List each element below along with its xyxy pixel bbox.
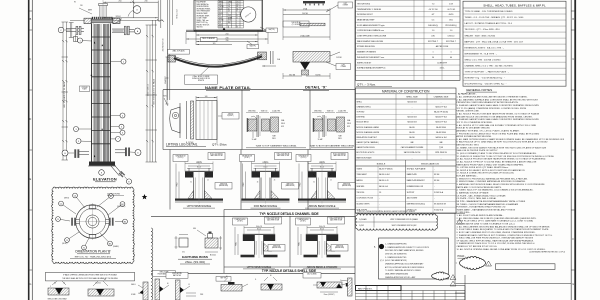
svg-text:4. ALL NOZZLE PROJECTIONS ARE: 4. ALL NOZZLE PROJECTIONS ARE TAKEN FROM… bbox=[457, 113, 540, 116]
svg-text:140: 140 bbox=[205, 96, 208, 98]
svg-text:1. ALL DIMENSIONS ARE IN MILLI: 1. ALL DIMENSIONS ARE IN MILLIMETER UNLE… bbox=[457, 96, 529, 99]
svg-text:C-(302: C-(302 bbox=[359, 225, 364, 227]
svg-text:TYP. NOZZLE DETAILS CHANNEL SI: TYP. NOZZLE DETAILS CHANNEL SIDE bbox=[259, 212, 318, 216]
svg-text:LIFT: LIFT bbox=[342, 64, 345, 66]
leader from flange bbox=[103, 20, 163, 22]
svg-text:9.1: 9.1 bbox=[219, 15, 221, 17]
svg-text:1.5: 1.5 bbox=[188, 284, 190, 286]
svg-text:(BEND&ONW): (BEND&ONW) bbox=[219, 185, 229, 187]
svg-text:SURFACE AREA (GROSS/EFF) m: SURFACE AREA (GROSS/EFF) m bbox=[357, 67, 386, 70]
svg-text:60: 60 bbox=[104, 279, 106, 281]
svg-text:C: C bbox=[572, 58, 574, 61]
svg-text:(25 WT.): (25 WT.) bbox=[237, 221, 243, 223]
svg-text:7.0: 7.0 bbox=[237, 2, 239, 4]
svg-text:SQ.NUT ): SQ.NUT ) bbox=[227, 115, 234, 117]
left dim of dish bbox=[166, 57, 168, 104]
name plate detail dish bbox=[168, 50, 190, 55]
revision table bbox=[356, 286, 402, 291]
lifting lug detail bbox=[170, 107, 180, 133]
svg-text:BOLT/STUDS & NUTS: BOLT/STUDS & NUTS bbox=[357, 152, 376, 154]
svg-text:SHELL, HEAD, TUBES, BAFFLES &: SHELL, HEAD, TUBES, BAFFLES & IMP.PL bbox=[483, 4, 546, 8]
svg-text:COOLER: COOLER bbox=[82, 87, 88, 89]
svg-text:SS TUBES - CHOKSI TUBE/RATNA: SS TUBES - CHOKSI TUBE/RATNAMANI/SANDVIK… bbox=[457, 203, 519, 206]
svg-text:1.6THK: 1.6THK bbox=[336, 57, 343, 59]
svg-text:OTHER: OTHER bbox=[343, 5, 349, 7]
svg-text:GASKETS KNUCKLES: GASKETS KNUCKLES bbox=[357, 146, 376, 149]
svg-text:DESIGN PRESS.: DESIGN PRESS. bbox=[197, 6, 210, 8]
earthing boss detail bbox=[151, 215, 224, 217]
svg-text:CAF NON ASBESTOS FIBRE: CAF NON ASBESTOS FIBRE bbox=[401, 146, 424, 149]
svg-text:PARTS AND 2.2 FOR NON-PRESSURE: PARTS AND 2.2 FOR NON-PRESSURE PARTS. bbox=[457, 186, 503, 189]
svg-text:12. VENDOR OF SUBJECTED TO BE: 12. VENDOR OF SUBJECTED TO BE CUT TEST O… bbox=[457, 156, 555, 158]
svg-text:VENT CONDENSER FOR VF-(302: VENT CONDENSER FOR VF-(302 bbox=[392, 225, 417, 227]
svg-text:PROJ: PROJ bbox=[243, 182, 245, 186]
svg-text:GASKET (WITH CHANNEL): GASKET (WITH CHANNEL) bbox=[357, 141, 379, 144]
channel dome arc bbox=[113, 19, 122, 24]
svg-text:4: 4 bbox=[488, 264, 489, 266]
svg-text:VESSEL CENTER LINE.: VESSEL CENTER LINE. bbox=[457, 111, 480, 113]
svg-text:14. ALL NOZZLE TYPES UP TO 200: 14. ALL NOZZLE TYPES UP TO 200 NB SHALL … bbox=[457, 160, 537, 163]
svg-text:9.1: 9.1 bbox=[219, 11, 221, 13]
svg-text:2. ALL WELDING SHALL BE DONE B: 2. ALL WELDING SHALL BE DONE BY QUALIFIE… bbox=[457, 217, 537, 220]
svg-text:1.5/2mm: 1.5/2mm bbox=[95, 283, 102, 285]
svg-text:960: 960 bbox=[228, 22, 231, 24]
svg-text:OTHER: OTHER bbox=[341, 66, 347, 68]
svg-text:1.0: 1.0 bbox=[432, 30, 435, 32]
middle weld details row bbox=[153, 271, 176, 277]
svg-text:5. FLANGES GASKETS FACE SHALL: 5. FLANGES GASKETS FACE SHALL HAVE CONCE… bbox=[457, 118, 540, 121]
svg-text:SA 106 Gr.B: SA 106 Gr.B bbox=[407, 121, 417, 124]
name plate logo circle bbox=[241, 7, 256, 22]
svg-text:SPRL WND SS: SPRL WND SS bbox=[435, 152, 447, 154]
svg-text:TUBES MAKE :- RATNAMANI/CHOKSI: TUBES MAKE :- RATNAMANI/CHOKSI METAL AND… bbox=[457, 208, 516, 211]
svg-text:D: D bbox=[572, 118, 574, 121]
svg-text:NAME PLATE DETAIL: NAME PLATE DETAIL bbox=[205, 85, 251, 90]
svg-text:C) WELDING:-: C) WELDING:- bbox=[457, 212, 471, 214]
shell side header band bbox=[224, 266, 355, 268]
svg-text:SEE DN IN: SEE DN IN bbox=[220, 183, 227, 185]
svg-text:PROJ: PROJ bbox=[236, 242, 238, 246]
svg-text:TUBE: TUBE bbox=[272, 136, 276, 138]
svg-text:RIVETS: RIVETS bbox=[198, 80, 205, 82]
svg-text:BEFORE HYDRO TEST.: BEFORE HYDRO TEST. bbox=[457, 145, 480, 147]
svg-text:165: 165 bbox=[213, 43, 216, 45]
svg-text:G: G bbox=[572, 283, 574, 286]
svg-text:CAREFULLY FIT BEFORE FIT-UP OF: CAREFULLY FIT BEFORE FIT-UP OF FLG. bbox=[457, 245, 498, 248]
svg-text:NOZZLE FLANGES & BORE: NOZZLE FLANGES & BORE bbox=[357, 131, 380, 134]
svg-text:Ø40: Ø40 bbox=[193, 228, 196, 230]
svg-text:(25 WT.): (25 WT.) bbox=[300, 221, 306, 223]
drain nozzle diagonal bbox=[111, 166, 120, 176]
svg-text:WORKING IN/OUT: WORKING IN/OUT bbox=[357, 14, 374, 16]
svg-text:65: 65 bbox=[237, 6, 239, 8]
svg-text:PREVENTING COMPOUND/GREASE/CUT: PREVENTING COMPOUND/GREASE/CUT AFTER REG… bbox=[457, 101, 519, 104]
svg-text:PROJ: PROJ bbox=[177, 182, 179, 186]
svg-text:8.9: 8.9 bbox=[219, 22, 221, 24]
orientation nozzles W/E bbox=[71, 218, 73, 226]
svg-text:WELD: WELD bbox=[347, 123, 351, 125]
svg-text:FABRICATED FROM PLATE & SHALL: FABRICATED FROM PLATE & SHALL USE TIG/AR… bbox=[457, 163, 525, 166]
svg-text:WORKING PRESS.: WORKING PRESS. bbox=[197, 8, 212, 10]
svg-text:SHELL: SHELL bbox=[131, 284, 136, 286]
svg-text:1. VENDOR TO PROVIDE ALL MATER: 1. VENDOR TO PROVIDE ALL MATERIAL AS PER… bbox=[457, 177, 528, 180]
svg-text:FLUID HANDLED/DENSITY kg/m: FLUID HANDLED/DENSITY kg/m bbox=[357, 24, 385, 27]
svg-text:(25 WT.): (25 WT.) bbox=[301, 157, 307, 159]
svg-text:A) FABRICATION:-: A) FABRICATION:- bbox=[458, 93, 477, 96]
svg-text:JOINT EFFICIENCY SHELL/DOME: JOINT EFFICIENCY SHELL/DOME bbox=[357, 36, 387, 38]
weld detail 3 (vertical bar right) bbox=[143, 282, 148, 300]
svg-text:REV. PDS NO.: REV. PDS NO. bbox=[358, 288, 373, 290]
svg-text:-10: -10 bbox=[228, 6, 230, 8]
svg-text:SHELL SIDE: SHELL SIDE bbox=[406, 97, 418, 99]
svg-text:PROJ.: PROJ. bbox=[272, 138, 277, 140]
svg-text:SA 182 F304: SA 182 F304 bbox=[436, 126, 446, 129]
svg-text:-10 TO 150: -10 TO 150 bbox=[428, 9, 437, 11]
svg-text:M6(TYP.): M6(TYP.) bbox=[250, 45, 257, 47]
svg-text:PROJ.: PROJ. bbox=[338, 138, 343, 140]
svg-text:DRAWINGS APPROVAL IS A COMPLEM: DRAWINGS APPROVAL IS A COMPLEMENTARY bbox=[385, 263, 424, 266]
svg-text:PROJ: PROJ bbox=[299, 242, 301, 246]
svg-text:C: C bbox=[30, 58, 32, 61]
svg-text:TYPE OF HEAD : 10% TORISPHERIC: TYPE OF HEAD : 10% TORISPHERICAL DISHED bbox=[465, 10, 514, 13]
svg-text:MISCELLANEOUS: MISCELLANEOUS bbox=[421, 163, 439, 166]
svg-text:STRESS RELIEVING: STRESS RELIEVING bbox=[357, 46, 375, 48]
MOC table bbox=[356, 88, 457, 213]
svg-text:1.0: 1.0 bbox=[450, 30, 453, 32]
svg-text:240 NB: 240 NB bbox=[302, 13, 309, 15]
svg-text:(SUPPORT): (SUPPORT) bbox=[117, 206, 126, 208]
svg-text:M.J: M.J bbox=[182, 252, 185, 254]
svg-text:CAF: CAF bbox=[439, 141, 442, 144]
weld detail vert right bbox=[348, 278, 353, 296]
svg-text:B: B bbox=[237, 27, 238, 29]
svg-text:CHANNEL SIDE: CHANNEL SIDE bbox=[434, 96, 449, 99]
back chipping note box bbox=[46, 272, 135, 281]
svg-text:SEE DN IN: SEE DN IN bbox=[336, 245, 343, 247]
svg-text:200 NB SCH 30: 200 NB SCH 30 bbox=[163, 39, 165, 52]
svg-text:(BEND&ONW): (BEND&ONW) bbox=[342, 185, 352, 187]
svg-text:(HOLD THE FABRICATION): (HOLD THE FABRICATION) bbox=[385, 259, 407, 262]
svg-text:G: G bbox=[29, 283, 31, 286]
svg-text:0.85/1.0: 0.85/1.0 bbox=[448, 36, 455, 38]
baffles bbox=[92, 49, 111, 51]
svg-text:STD: STD bbox=[228, 20, 231, 22]
svg-text:7. WHEREVER BACK CHIPPING IS N: 7. WHEREVER BACK CHIPPING IS NOT POSSIBL… bbox=[457, 234, 553, 237]
svg-text:4. TUBES: SA 213 TP 316 SEAMLE: 4. TUBES: SA 213 TP 316 SEAMLESS, COLD D… bbox=[457, 189, 534, 192]
svg-text:11. (GULL FORWARD) PLANS TO BE: 11. (GULL FORWARD) PLANS TO BE STEEL REL… bbox=[457, 152, 537, 155]
svg-text:EARTHING BOSS: EARTHING BOSS bbox=[182, 255, 208, 259]
svg-text:2. VENDOR SHALL CONSIDER MATER: 2. VENDOR SHALL CONSIDER MATERIAL AS SPE… bbox=[457, 180, 527, 183]
svg-text:UPTO 50NB NOZZLE: UPTO 50NB NOZZLE bbox=[187, 205, 212, 208]
svg-text:8. WELD SHALL BE FREE FROM UND: 8. WELD SHALL BE FREE FROM UNDERCUT, OVE… bbox=[457, 237, 534, 240]
channel nozzle details row bbox=[173, 155, 188, 162]
svg-text:18.0: 18.0 bbox=[449, 19, 453, 21]
svg-text:SPOT/NIL T: SPOT/NIL T bbox=[446, 41, 457, 43]
svg-text:SHELL O.D x THK : 200 NB x SCH: SHELL O.D x THK : 200 NB x SCH30 bbox=[465, 59, 502, 61]
svg-text:CS PLATE - SAIL, ESSAR/JINDA: CS PLATE - SAIL, ESSAR/JINDAL/TISCO & ES… bbox=[457, 194, 506, 197]
svg-text:0.5: 0.5 bbox=[432, 19, 435, 21]
svg-text:5. FILLET WELD SHALL BE EQUATE: 5. FILLET WELD SHALL BE EQUATED TO GIVE … bbox=[457, 228, 550, 231]
svg-text:SPACER : SIZE : Ø6B x SCH40: SPACER : SIZE : Ø6B x SCH40 bbox=[465, 34, 496, 37]
svg-text:7965 T/S FACE TO T/L FACE: 7965 T/S FACE TO T/L FACE bbox=[152, 78, 155, 105]
svg-text:2 - DRAWING APPROVED SUBJECT T: 2 - DRAWING APPROVED SUBJECT TO HOLD POI… bbox=[385, 246, 430, 249]
svg-text:OF GALLED; WELD RIPPLES SHALL: OF GALLED; WELD RIPPLES SHALL HAVE REGUL… bbox=[457, 239, 535, 242]
svg-text:SEE DN IN: SEE DN IN bbox=[273, 245, 280, 247]
svg-text:T(BORE) HOLE: T(BORE) HOLE bbox=[175, 155, 185, 157]
svg-text:CHANNEL SHELL O.D x THK : 200: CHANNEL SHELL O.D x THK : 200 NB x SCHST… bbox=[465, 64, 514, 67]
svg-text:-10 TO 65: -10 TO 65 bbox=[447, 9, 455, 11]
svg-text:SCH30: SCH30 bbox=[219, 20, 224, 22]
svg-text:RADIOGRAPHY SHELL/DOME: RADIOGRAPHY SHELL/DOME bbox=[357, 40, 384, 43]
svg-text:9. WHEREVER BY PLACE FULL TO 1: 9. WHEREVER BY PLACE FULL TO 1/2 & 1/3 J… bbox=[457, 242, 536, 245]
svg-text:6. ALL NOZZLE UP TO 50NB SHALL: 6. ALL NOZZLE UP TO 50NB SHALL BE SUITAB… bbox=[457, 124, 537, 127]
svg-text:4.59: 4.59 bbox=[449, 3, 453, 5]
svg-text:ACTION, HOWEVER VENDOR IS RESP: ACTION, HOWEVER VENDOR IS RESPONSIBLE bbox=[385, 266, 425, 269]
svg-text:(-0/3 AND ABOVE 20NB TO 50NB T: (-0/3 AND ABOVE 20NB TO 50NB TOLERANCE T… bbox=[457, 223, 516, 226]
svg-text:230: 230 bbox=[226, 40, 229, 42]
svg-text:65/20: 65/20 bbox=[449, 14, 454, 16]
svg-text:FLG. OD: FLG. OD bbox=[256, 226, 263, 228]
svg-text:60: 60 bbox=[167, 283, 169, 285]
svg-text:60: 60 bbox=[270, 275, 272, 277]
svg-text:ABOVE BEND & ONWARD: ABOVE BEND & ONWARD bbox=[307, 266, 338, 269]
svg-text:BUNDLE: BUNDLE bbox=[377, 164, 386, 166]
orientation circles bbox=[76, 205, 110, 239]
svg-text:9. EACH NOZZLE UP TO 50NB SHAL: 9. EACH NOZZLE UP TO 50NB SHALL BE KEPT … bbox=[457, 141, 548, 144]
svg-text:LAYOUT : ROTATED TRIANGULAR: LAYOUT : ROTATED TRIANGULAR PITCH : 25.4 bbox=[465, 22, 513, 25]
svg-text:NOZZLE/ PIPE: NOZZLE/ PIPE bbox=[172, 273, 181, 275]
svg-text:TIE RODS : QTY : 4 Nos SIZE: TIE RODS : QTY : 4 Nos SIZE : Ø10 bbox=[465, 29, 501, 31]
svg-text:(VENT): (VENT) bbox=[64, 198, 70, 200]
svg-text:DWG WILL BE SUBMITTED: DWG WILL BE SUBMITTED bbox=[385, 253, 408, 255]
svg-text:SA 240 Gr 304: SA 240 Gr 304 bbox=[435, 136, 446, 139]
svg-text:7.0: 7.0 bbox=[228, 4, 230, 6]
svg-text:1487 T/S FACE TO T/L FACE: 1487 T/S FACE TO T/L FACE bbox=[63, 81, 66, 108]
svg-text:NOZZLE FLANGES & BEND: NOZZLE FLANGES & BEND bbox=[357, 126, 380, 129]
svg-text:SEE DN IN: SEE DN IN bbox=[287, 183, 294, 185]
svg-text:DETAIL 'X': DETAIL 'X' bbox=[305, 86, 327, 90]
elevation: left dim lines bbox=[62, 22, 64, 160]
svg-text:B Nos. NUT (HOLE): B Nos. NUT (HOLE) bbox=[277, 153, 290, 155]
svg-text:WELD: WELD bbox=[281, 123, 285, 125]
weld arrows on column bbox=[94, 42, 95, 44]
svg-text:HYDRO TEST DT.: HYDRO TEST DT. bbox=[197, 24, 211, 26]
svg-text:2013: 2013 bbox=[219, 17, 222, 19]
svg-text:FLG. OD: FLG. OD bbox=[319, 226, 326, 228]
balloons along column bbox=[80, 40, 92, 43]
svg-text:SHELL THK. mm: SHELL THK. mm bbox=[197, 20, 210, 22]
svg-text:SS 304: SS 304 bbox=[434, 180, 439, 182]
svg-text:B) PLAIN MATERIAL:-: B) PLAIN MATERIAL:- bbox=[457, 175, 478, 178]
small fitting below left nozzle bbox=[70, 23, 72, 38]
svg-text:7.0: 7.0 bbox=[432, 3, 435, 5]
svg-text:CLIENT/TPI: CLIENT/TPI bbox=[437, 62, 447, 64]
svg-text:M10x50L: M10x50L bbox=[210, 255, 216, 257]
svg-text:E-401: E-401 bbox=[219, 27, 223, 29]
vertical cloud revision line bbox=[151, 228, 153, 300]
svg-text:(REF): (REF) bbox=[88, 10, 92, 12]
svg-text:TOP END: TOP END bbox=[357, 112, 365, 114]
svg-text:SA 193 B7/SA 194 2H: SA 193 B7/SA 194 2H bbox=[404, 151, 421, 154]
svg-text:65/20: 65/20 bbox=[219, 13, 223, 15]
orientation balloons bbox=[75, 196, 85, 209]
weld detail horiz 3 (nozzle to shell) bbox=[303, 273, 321, 278]
svg-text:Ø6n,TILLRMKD: Ø6n,TILLRMKD bbox=[307, 274, 317, 276]
svg-text:13. ALL NOZZLE PROJECTIONS ARE: 13. ALL NOZZLE PROJECTIONS ARE TAKEN FRO… bbox=[457, 158, 547, 161]
svg-text:20: 20 bbox=[228, 8, 230, 10]
vent condenser cloud box bbox=[355, 214, 437, 230]
svg-text:R25: R25 bbox=[163, 96, 166, 98]
detail X main block bbox=[293, 52, 330, 63]
svg-text:DATA SHEET/DRAWING AND: DATA SHEET/DRAWING AND bbox=[385, 273, 409, 276]
notes panel lines bbox=[454, 213, 456, 283]
svg-text:MATERIAL OF CONSTRUCTION: MATERIAL OF CONSTRUCTION bbox=[382, 89, 430, 93]
svg-text:TUBE: TUBE bbox=[338, 136, 342, 138]
svg-text:5. MATERIAL SOURCE OF MAKE:: 5. MATERIAL SOURCE OF MAKE: bbox=[457, 191, 490, 194]
small triangles left of rev table bbox=[450, 275, 456, 280]
bottom left nozzle bbox=[78, 151, 89, 153]
svg-text:NUMBER OF PASSES: NUMBER OF PASSES bbox=[357, 51, 377, 54]
svg-text:AND ARE NOZZLE ON DISH END TO: AND ARE NOZZLE ON DISH END TO BE MEASURE… bbox=[457, 115, 533, 118]
svg-text:4: 4 bbox=[454, 277, 455, 279]
svg-text:65/20: 65/20 bbox=[219, 8, 223, 10]
svg-text:RODS AT 90 DEG APART WELDED: RODS AT 90 DEG APART WELDED bbox=[457, 127, 491, 130]
orientation plan cloud box bbox=[52, 187, 135, 263]
svg-text:SA 106 Gr.B: SA 106 Gr.B bbox=[407, 100, 417, 103]
weld detail 1 bbox=[48, 288, 69, 295]
svg-text:SS PIPE - MAHARASHTRA SMLS/: SS PIPE - MAHARASHTRA SMLS/RATNAMANI/HEA… bbox=[457, 200, 526, 203]
svg-text:EXPANSION JOINTS : N.A O.D: EXPANSION JOINTS : N.A O.D x THK : - bbox=[465, 46, 505, 49]
svg-text:SPOT/NIL T: SPOT/NIL T bbox=[428, 41, 439, 43]
svg-text:CAF: CAF bbox=[410, 141, 413, 144]
svg-text:250: 250 bbox=[119, 1, 122, 3]
svg-text:GENERAL NOTES: GENERAL NOTES bbox=[466, 88, 492, 92]
svg-text:(BEND&ONW): (BEND&ONW) bbox=[335, 247, 345, 249]
svg-text:60: 60 bbox=[226, 276, 228, 278]
svg-text:CS: CS bbox=[379, 192, 381, 194]
svg-text:3. FOR FILLET WELD UP TO 10MM: 3. FOR FILLET WELD UP TO 10MM HAVE TOLER… bbox=[457, 220, 534, 223]
svg-text:MEAN METAL TEMP: MEAN METAL TEMP bbox=[357, 18, 375, 21]
svg-text:1 - DRAWINGS APPROVED: 1 - DRAWINGS APPROVED bbox=[385, 242, 408, 245]
svg-text:DISH END: DISH END bbox=[357, 117, 366, 119]
bottom right nozzle bbox=[115, 149, 125, 151]
svg-text:PROCESS/(-): PROCESS/(-) bbox=[445, 25, 457, 27]
svg-text:PIPE: PIPE bbox=[200, 294, 203, 296]
svg-text:CHNL: CHNL bbox=[228, 2, 232, 4]
svg-text:CHANNEL SHELL: CHANNEL SHELL bbox=[357, 105, 371, 108]
svg-text:B Nos. NUT (HOLE): B Nos. NUT (HOLE) bbox=[267, 218, 280, 220]
svg-text:HOLD:-: HOLD:- bbox=[458, 255, 466, 258]
svg-text:SA 240 TP 304: SA 240 TP 304 bbox=[435, 116, 446, 119]
svg-text:LIFTING LUG DETAIL: LIFTING LUG DETAIL bbox=[166, 142, 198, 146]
design data table bbox=[356, 0, 461, 80]
svg-text:2Nos. (SS 304): 2Nos. (SS 304) bbox=[185, 260, 205, 264]
orientation top/bottom stubs bbox=[89, 206, 96, 210]
svg-text:QTY.-2Nos: QTY.-2Nos bbox=[212, 142, 227, 146]
svg-text:TIE RODS: TIE RODS bbox=[357, 192, 366, 194]
svg-text:(INLET): (INLET) bbox=[62, 243, 68, 245]
svg-text:SUPPORT: SUPPORT bbox=[407, 192, 415, 194]
svg-text:M6(TYP.): M6(TYP.) bbox=[269, 29, 276, 31]
svg-text:T(SERVE) HOLE: T(SERVE) HOLE bbox=[298, 219, 309, 221]
svg-text:WORKING TEMP.: WORKING TEMP. bbox=[197, 15, 210, 17]
svg-text:TUBES : O.D : 19.05 THK : MIN/: TUBES : O.D : 19.05 THK : MIN/AVG QTY : … bbox=[465, 16, 525, 19]
svg-text:QTY. :- 3 Nos.: QTY. :- 3 Nos. bbox=[357, 82, 376, 86]
svg-text:20mm (OFFSET): 20mm (OFFSET) bbox=[324, 294, 335, 296]
svg-text:LIFT: LIFT bbox=[344, 3, 347, 5]
svg-text:PARTITION PLATE: PARTITION PLATE bbox=[357, 156, 373, 159]
svg-text:EQUIPMENT: EQUIPMENT bbox=[197, 2, 207, 4]
svg-text:3.55/-: 3.55/- bbox=[440, 68, 445, 70]
elevation: top nozzle bbox=[99, 6, 101, 18]
svg-text:2. ALL MACHINED SURFACE AND CO: 2. ALL MACHINED SURFACE AND CORROSIVE SH… bbox=[457, 98, 539, 101]
svg-text:REF. DOC. NO : YEAR-LNG-32924: REF. DOC. NO : YEAR-LNG-32924 (RO) bbox=[75, 256, 112, 259]
svg-text:NOZZLE NECK: NOZZLE NECK bbox=[357, 122, 370, 124]
svg-text:ORIENTATION PLAN 'B': ORIENTATION PLAN 'B' bbox=[75, 250, 111, 254]
svg-text:4.59: 4.59 bbox=[219, 4, 222, 6]
svg-text:TUBE SHEET: TUBE SHEET bbox=[357, 174, 367, 176]
detail X dims top bbox=[283, 9, 330, 11]
svg-text:CHILLED/(-): CHILLED/(-) bbox=[428, 25, 439, 27]
svg-text:8. ALL MAIN OUTSIDE EDGES & SH: 8. ALL MAIN OUTSIDE EDGES & SHARP EDGES/… bbox=[457, 138, 565, 141]
elevation: bottom tubesheet bbox=[89, 162, 115, 166]
svg-text:SS 304: SS 304 bbox=[434, 174, 439, 176]
elevation: top dims bbox=[103, 1, 158, 3]
svg-text:SHALL BE IN PROPER PLATE OF SU: SHALL BE IN PROPER PLATE OF SUPPLY. bbox=[457, 149, 499, 152]
svg-text:16. NOZZLE W1 GASKET, NUTS & B: 16. NOZZLE W1 GASKET, NUTS & BOLTS SUPPL… bbox=[457, 169, 526, 172]
svg-text:SA 182 F304: SA 182 F304 bbox=[436, 131, 446, 134]
svg-text:SA 312 TP 304: SA 312 TP 304 bbox=[435, 121, 446, 124]
svg-text:1. ALL FILLET SIZE AS SERVICE: 1. ALL FILLET SIZE AS SERVICE ARE NOMINA… bbox=[457, 214, 504, 217]
svg-text:AFTER SUITABLE AFTER WELDING.: AFTER SUITABLE AFTER WELDING. bbox=[457, 135, 493, 138]
bracket bar under plate bbox=[186, 29, 268, 31]
svg-text:SA 312 TP 304: SA 312 TP 304 bbox=[435, 105, 446, 108]
svg-text:CORROSION ALLOWANCE mm: CORROSION ALLOWANCE mm bbox=[357, 29, 384, 32]
svg-text:T(BORE) HOLE: T(BORE) HOLE bbox=[298, 155, 308, 157]
svg-text:(25 WT.): (25 WT.) bbox=[244, 157, 250, 159]
svg-text:(CONTINUED REFER NOTES NO. 5 O: (CONTINUED REFER NOTES NO. 5 OF 2) bbox=[529, 252, 565, 254]
svg-text:-10/150: -10/150 bbox=[219, 6, 224, 8]
svg-text:3. MATERIAL CERTIFICATION SHAL: 3. MATERIAL CERTIFICATION SHALL BE ACCOR… bbox=[457, 183, 546, 186]
svg-text:3 - DRAWINGS REJECTED: 3 - DRAWINGS REJECTED bbox=[385, 256, 407, 259]
svg-text:SCH30: SCH30 bbox=[315, 74, 320, 76]
svg-text:60: 60 bbox=[54, 283, 56, 285]
balloon detail X ref bbox=[133, 6, 141, 14]
svg-text:CS PLATE - TISCO, TATA, SAIL: CS PLATE - TISCO, TATA, SAIL & JINDAL bbox=[457, 197, 497, 200]
svg-text:INSPECTION BY: INSPECTION BY bbox=[357, 62, 372, 64]
dims under name plate bbox=[195, 30, 197, 45]
svg-text:SA 240: SA 240 bbox=[409, 136, 415, 139]
svg-text:60: 60 bbox=[450, 57, 452, 59]
svg-text:3. FLANGED GASKETS FACE SHALL: 3. FLANGED GASKETS FACE SHALL HAVE CONCE… bbox=[457, 104, 540, 107]
svg-text:17. NOZZLE CONNECTED WITH U/S: 17. NOZZLE CONNECTED WITH U/S (TANK VP./… bbox=[457, 172, 515, 175]
svg-text:210: 210 bbox=[226, 33, 229, 35]
svg-text:15. LIFTING GUIDE HOLD QTY SHA: 15. LIFTING GUIDE HOLD QTY SHALL BE APR … bbox=[457, 166, 509, 169]
svg-text:TEST PRESSURE: TEST PRESSURE bbox=[197, 11, 210, 13]
svg-text:ABOVE BEND NOZZLE: ABOVE BEND NOZZLE bbox=[309, 205, 336, 208]
svg-text:B Nos. NUT (HOLE): B Nos. NUT (HOLE) bbox=[333, 153, 346, 155]
weld detail 2 bbox=[88, 289, 114, 296]
svg-text:TO SUPPLY MATERIAL AS PER MTL: TO SUPPLY MATERIAL AS PER MTL ORDER bbox=[385, 269, 421, 272]
svg-text:INSULATION THK/DENSITY mm: INSULATION THK/DENSITY mm bbox=[357, 56, 385, 59]
svg-text:50: 50 bbox=[432, 57, 434, 59]
svg-text:PROCEED WITH PART FABRICATION,: PROCEED WITH PART FABRICATION, REVISED bbox=[385, 249, 424, 252]
svg-text:2013: 2013 bbox=[219, 24, 222, 26]
panel lines bbox=[163, 89, 355, 91]
svg-text:TEMPERATURE °C DESIGN: TEMPERATURE °C DESIGN bbox=[357, 8, 382, 11]
svg-text:TYPE OF SUPPORT : - PARTITI: TYPE OF SUPPORT : - PARTITION PLATE : - bbox=[465, 70, 510, 73]
svg-text:WT.LIFS/TEST Kg : ~260 WT.: WT.LIFS/TEST Kg : ~260 WT. OPER. Kg : ~ bbox=[465, 83, 508, 85]
